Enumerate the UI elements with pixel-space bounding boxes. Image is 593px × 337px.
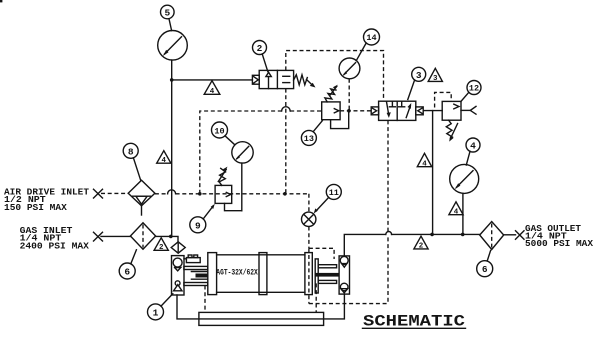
wire outlet branch vertical <box>432 111 434 235</box>
balloon 12 <box>461 81 481 102</box>
balloon 11 <box>314 184 342 213</box>
node junction dashed tee left <box>198 192 202 196</box>
wire filter 6 to pump <box>156 236 178 241</box>
svg-text:2: 2 <box>419 243 424 251</box>
regulator 9 <box>215 185 232 203</box>
booster cylinder 1 <box>208 253 312 295</box>
triangle note 4 <box>204 81 220 96</box>
wire pump bottom tie <box>177 294 344 319</box>
svg-text:5000 PSI MAX: 5000 PSI MAX <box>525 238 593 249</box>
text GAS OUTLET <box>525 223 593 249</box>
svg-text:1: 1 <box>153 307 159 318</box>
wire regulator 13 feedback <box>331 111 349 129</box>
text AIR DRIVE INLET <box>4 187 89 213</box>
triangle note 4 beside vertical <box>157 151 171 165</box>
balloon 6 outlet <box>477 251 493 277</box>
balloon 8 <box>123 143 140 180</box>
triangle note 4 under gauge 4 <box>449 202 463 217</box>
regulator 12 <box>442 101 461 120</box>
pump right gas barrel <box>339 256 349 294</box>
spring regulator 9 <box>218 167 227 186</box>
spring regulator 12 <box>446 120 457 141</box>
gauge 4 <box>450 164 479 193</box>
svg-text:3: 3 <box>416 70 422 81</box>
gauge 5 <box>158 31 188 61</box>
valve 3 left pilot actuator <box>371 107 378 115</box>
svg-text:14: 14 <box>366 33 376 43</box>
base plate <box>199 312 324 325</box>
wire valve3 to regulator 12 <box>423 110 442 112</box>
node junction gauge 4 <box>461 233 465 237</box>
svg-text:9: 9 <box>195 220 201 231</box>
valve 2 pilot actuator <box>252 75 259 84</box>
node junction outlet branch <box>430 233 434 237</box>
filter 6 outlet <box>480 222 504 250</box>
wire gauge 4 stem <box>462 193 464 234</box>
gauge 10 <box>232 142 253 163</box>
svg-text:12: 12 <box>469 84 479 94</box>
valve 2 <box>259 70 293 88</box>
svg-text:11: 11 <box>329 188 339 198</box>
valve 3 <box>379 101 416 120</box>
svg-text:4: 4 <box>210 88 215 96</box>
pilot line gauge 14 stem <box>348 79 350 111</box>
check valve gas inlet diamond <box>171 242 185 253</box>
svg-text:4: 4 <box>470 141 476 152</box>
node junction dashed tee right <box>283 192 287 196</box>
wire regulator 9 feedback <box>225 203 242 210</box>
balloon 4 <box>466 138 480 165</box>
node junction regulator 13 out <box>347 109 351 113</box>
pump left gas barrel <box>172 256 185 295</box>
node junction gas vertical <box>169 235 173 239</box>
balloon 10 <box>212 122 235 145</box>
svg-text:6: 6 <box>124 267 130 278</box>
port X gas inlet <box>94 232 103 241</box>
svg-text:13: 13 <box>304 134 314 144</box>
svg-text:2: 2 <box>159 244 164 252</box>
triangle note 3 <box>428 68 442 83</box>
svg-text:5: 5 <box>164 8 170 19</box>
svg-text:4: 4 <box>162 157 167 165</box>
svg-text:10: 10 <box>214 126 224 136</box>
spring valve 2 <box>294 75 316 88</box>
triangle note 4 outlet branch <box>417 153 431 168</box>
port X air inlet <box>94 189 103 198</box>
svg-text:6: 6 <box>482 264 488 275</box>
pilot line valve3 lower run <box>387 120 389 303</box>
pilot line air main run <box>155 190 309 194</box>
balloon 6 inlet <box>119 250 136 279</box>
filter 6 inlet <box>130 223 155 249</box>
filter 8 <box>128 180 155 215</box>
balloon 13 <box>301 121 322 146</box>
balloon 3 <box>408 67 426 99</box>
pilot line valve2 bottom <box>285 89 287 194</box>
svg-text:AGT-32X/62X: AGT-32X/62X <box>216 268 258 277</box>
spring regulator 13 <box>325 85 338 102</box>
pilot line upper dashed run <box>200 107 371 194</box>
text GAS INLET <box>20 225 90 251</box>
wire outlet riser <box>344 234 386 256</box>
svg-text:2: 2 <box>257 43 263 54</box>
pilot line air inlet to filter 8 <box>101 192 128 194</box>
balloon 1 <box>148 294 173 320</box>
svg-text:150 PSI MAX: 150 PSI MAX <box>4 202 67 213</box>
corner mark <box>0 0 2 2</box>
port X gas outlet <box>516 231 525 240</box>
svg-text:3: 3 <box>433 75 438 83</box>
pilot line valve 11 down <box>308 227 310 249</box>
pilot line right piston dashed box <box>309 248 388 312</box>
svg-text:8: 8 <box>128 146 134 157</box>
balloon 14 <box>356 29 379 61</box>
wire gauge 10 stem <box>241 163 243 211</box>
pump right piston flange <box>315 259 339 293</box>
triangle note 2 outlet <box>414 236 428 250</box>
pilot line left piston drain <box>204 286 206 313</box>
wire outlet to port <box>504 234 516 236</box>
wire air line to valve 2 <box>172 79 253 81</box>
pilot line regulator 12 sense <box>435 92 452 107</box>
node junction air branch <box>170 78 174 82</box>
vent regulator 12 <box>461 106 476 114</box>
triangle note 2 gas inlet <box>154 238 168 252</box>
text SCHEMATIC <box>363 313 466 331</box>
muffler box <box>184 255 200 263</box>
pilot line corner down to valve 11 <box>308 194 310 212</box>
wire outlet line with hop <box>386 231 480 234</box>
balloon 9 <box>190 204 215 233</box>
pump left piston flange <box>184 266 208 285</box>
svg-text:4: 4 <box>422 160 427 168</box>
valve 11 <box>302 212 316 226</box>
pilot line valve2 top loop <box>286 51 384 102</box>
balloon 5 <box>161 5 175 30</box>
valve 3 right pilot actuator <box>416 107 423 115</box>
wire gauge5 stem and main vertical <box>171 60 173 236</box>
regulator 13 <box>322 102 340 120</box>
wire gas inlet to filter 6 <box>101 235 130 237</box>
svg-text:2400 PSI MAX: 2400 PSI MAX <box>20 240 90 251</box>
balloon 2 <box>253 41 268 72</box>
gauge 14 <box>339 58 360 79</box>
svg-text:4: 4 <box>454 208 459 216</box>
